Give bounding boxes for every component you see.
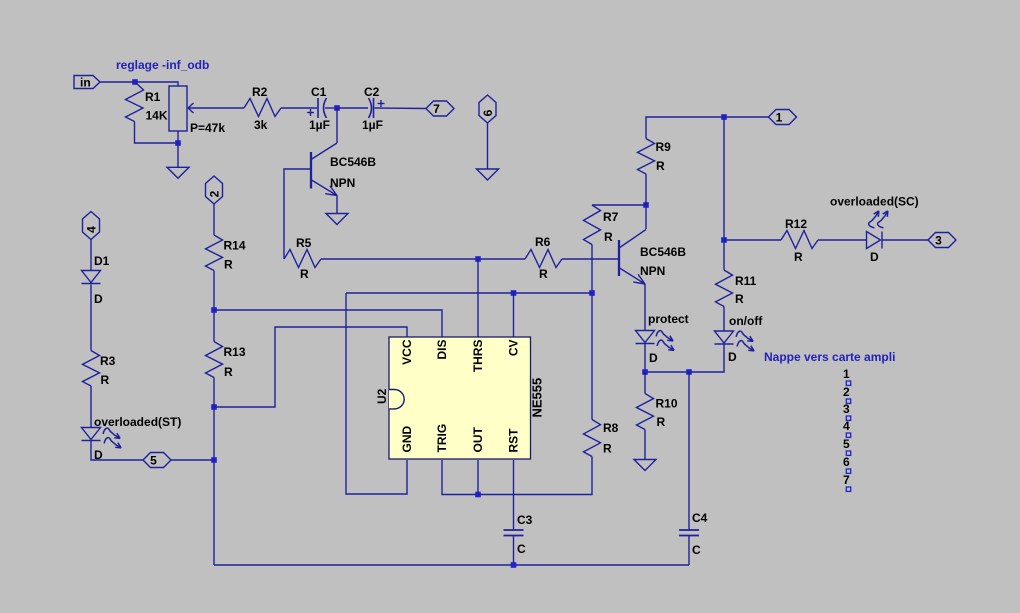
svg-text:R5: R5 — [296, 236, 312, 250]
capacitor C3 — [504, 529, 524, 531]
wire C1 to junction — [325, 107, 337, 109]
wire connector 4 to D1 — [90, 240, 92, 271]
wire R12 to diode SC — [818, 239, 866, 241]
capacitor C2 — [369, 98, 372, 118]
wire protect LED to junction — [644, 344, 646, 373]
svg-text:R: R — [101, 373, 110, 387]
resistor R3 — [83, 351, 100, 387]
svg-text:BC546B: BC546B — [330, 155, 376, 169]
svg-text:6: 6 — [481, 109, 495, 116]
resistor R1 — [126, 82, 144, 122]
svg-text:reglage -inf_odb: reglage -inf_odb — [116, 58, 209, 72]
wire wiper to R2 — [188, 107, 244, 109]
svg-text:3: 3 — [935, 234, 942, 248]
transistor Q1 BC546B — [310, 152, 312, 189]
wire junction to ground — [177, 143, 179, 167]
wire pot bottom — [177, 131, 179, 143]
node junction DIS tap — [211, 307, 217, 313]
ground below R10 — [634, 460, 656, 471]
wire R14 to R13 — [213, 271, 215, 342]
light arrows overloaded(SC) — [868, 210, 879, 229]
diode overloaded(SC) — [867, 232, 881, 249]
svg-text:14K: 14K — [146, 109, 168, 123]
svg-text:NPN: NPN — [330, 176, 355, 190]
node junction VCC tap — [211, 404, 217, 410]
svg-text:1: 1 — [843, 367, 850, 381]
wire Q2 collector riser — [645, 205, 647, 229]
svg-text:3: 3 — [843, 402, 850, 416]
wire R2 to C1 — [281, 107, 317, 109]
svg-text:2: 2 — [843, 385, 850, 399]
svg-text:3k: 3k — [254, 118, 268, 132]
resistor R14 — [206, 235, 223, 271]
svg-text:C1: C1 — [311, 85, 327, 99]
wire Q1 emitter to ground — [336, 196, 338, 215]
svg-text:THRS: THRS — [471, 340, 485, 373]
wire connector 2 to R14 — [213, 204, 215, 235]
node junction C4 tap — [686, 369, 692, 375]
svg-text:BC546B: BC546B — [640, 245, 686, 259]
svg-text:C4: C4 — [692, 511, 708, 525]
resistor R13 — [206, 342, 223, 378]
wire connector 6 to ground — [487, 123, 489, 169]
svg-text:VCC: VCC — [400, 339, 414, 365]
svg-text:on/off: on/off — [729, 314, 763, 328]
wire connector 5 to rail — [171, 459, 214, 461]
svg-text:overloaded(SC): overloaded(SC) — [830, 195, 919, 209]
wire Q2 emitter to protect LED — [644, 284, 646, 330]
svg-text:1: 1 — [776, 111, 783, 125]
wire OUT pin — [477, 460, 479, 495]
resistor R6 — [525, 250, 562, 268]
svg-text:R6: R6 — [535, 235, 551, 249]
svg-text:D: D — [94, 292, 103, 306]
pot wiper arrow — [188, 103, 194, 108]
svg-text:C3: C3 — [517, 513, 533, 527]
resistor R9 — [638, 139, 655, 175]
wire on/off LED to junction — [645, 344, 724, 372]
wire Q1 base to R5 — [284, 169, 311, 259]
wire R7 to R8 — [591, 245, 593, 420]
node junction TRIG/OUT — [475, 492, 481, 498]
ground below potentiometer — [167, 167, 189, 178]
svg-text:R: R — [224, 258, 233, 272]
node junction at connector 1 line — [721, 114, 727, 120]
wire CV drop — [513, 293, 515, 337]
wire R11 to on/off LED — [723, 307, 725, 332]
wire R13 to bus corner — [213, 378, 215, 566]
svg-text:Nappe vers carte ampli: Nappe vers carte ampli — [764, 350, 895, 364]
svg-text:R: R — [657, 415, 666, 429]
svg-text:D: D — [870, 250, 879, 264]
svg-text:R: R — [539, 267, 548, 281]
resistor R2 — [244, 99, 281, 117]
connector 6 — [479, 95, 496, 123]
svg-text:R: R — [794, 250, 803, 264]
capacitor C1 — [317, 98, 319, 118]
svg-text:4: 4 — [843, 419, 850, 433]
svg-text:R: R — [300, 267, 309, 281]
wire R9 to junction — [645, 174, 647, 205]
wire bottom bus — [214, 564, 689, 566]
wire C4 to bus — [688, 536, 690, 566]
wire in to potentiometer top — [100, 82, 178, 86]
connector in — [74, 76, 100, 89]
wire C2 to connector 7 — [375, 107, 427, 110]
svg-text:R: R — [603, 442, 612, 456]
svg-text:R8: R8 — [603, 421, 619, 435]
svg-text:C: C — [517, 542, 526, 556]
svg-text:5: 5 — [150, 454, 157, 468]
wire diode to connector 3 — [882, 239, 928, 241]
svg-text:R14: R14 — [224, 239, 246, 253]
wire junction to R8 — [478, 457, 592, 495]
connector 3 — [928, 233, 956, 248]
svg-text:R2: R2 — [252, 85, 268, 99]
resistor R12 — [781, 231, 818, 249]
wire VCC line — [214, 327, 407, 407]
svg-text:R3: R3 — [100, 354, 116, 368]
wire R12 link — [724, 239, 781, 241]
wire THRS drop — [477, 259, 479, 337]
svg-text:overloaded(ST): overloaded(ST) — [94, 415, 181, 429]
connector 4 — [83, 212, 100, 240]
svg-text:R: R — [656, 159, 665, 173]
resistor R5 — [284, 250, 321, 268]
svg-text:R: R — [735, 292, 744, 306]
svg-text:R9: R9 — [656, 140, 672, 154]
resistor R7 — [584, 205, 601, 245]
svg-text:U2: U2 — [375, 388, 389, 404]
wire R10 to ground — [644, 430, 646, 461]
IC notch — [389, 390, 404, 409]
svg-text:6: 6 — [843, 455, 850, 469]
node junction CV tap — [511, 290, 517, 296]
svg-text:D1: D1 — [94, 254, 110, 268]
svg-text:C: C — [692, 543, 701, 557]
node junction rail x592 at y293 — [589, 290, 595, 296]
wire junction to R10 — [644, 372, 646, 394]
svg-text:7: 7 — [843, 473, 850, 487]
wire Q1 collector to junction — [336, 108, 338, 143]
svg-text:7: 7 — [433, 102, 440, 116]
wire R9 to connector 1 — [646, 117, 769, 139]
svg-text:5: 5 — [843, 437, 850, 451]
wire CV/GND horizontal y293 — [346, 292, 592, 294]
node junction protect/R10 — [642, 369, 648, 375]
svg-text:GND: GND — [400, 426, 414, 453]
svg-text:D: D — [728, 350, 737, 364]
light arrows on/off — [736, 331, 755, 342]
svg-text:R7: R7 — [603, 210, 619, 224]
wire DIS line — [214, 310, 442, 337]
capacitor C4 — [679, 529, 699, 531]
svg-text:CV: CV — [507, 340, 521, 357]
resistor R10 — [637, 394, 654, 430]
svg-text:NPN: NPN — [640, 264, 665, 278]
light arrows protect — [656, 330, 675, 341]
wire R6 to Q2 base — [562, 258, 619, 260]
wire LED ST to connector 5 — [91, 441, 143, 461]
svg-text:R13: R13 — [224, 345, 246, 359]
wire R5 to R6 — [321, 258, 525, 260]
wire TRIG pin — [442, 460, 478, 495]
svg-text:R10: R10 — [656, 397, 678, 411]
connector 2 — [206, 176, 223, 204]
ground below Q1 — [326, 214, 348, 225]
wire R3 to LED ST — [90, 386, 92, 428]
node junction hex5 tap — [211, 457, 217, 463]
wire junction to C2 — [337, 107, 368, 109]
node junction C3 bus — [511, 562, 517, 568]
connector 5 — [143, 453, 171, 468]
svg-text:2: 2 — [208, 190, 222, 197]
LED overloaded(ST) — [82, 428, 101, 440]
svg-text:TRIG: TRIG — [435, 424, 449, 453]
transistor Q2 BC546B — [618, 240, 620, 276]
node junction at in/R1/pot — [132, 79, 138, 85]
wire RST pin to C3 — [513, 460, 515, 530]
connector 1 — [769, 110, 797, 125]
svg-text:R12: R12 — [785, 217, 807, 231]
node junction R9/R7/Q2 — [643, 202, 649, 208]
ground below connector 6 — [477, 169, 499, 180]
IC U2 NE555 body — [389, 337, 531, 459]
wire R7 link — [592, 204, 646, 206]
node junction THRS tap — [475, 256, 481, 262]
svg-text:1µF: 1µF — [362, 118, 383, 132]
svg-text:C2: C2 — [364, 85, 380, 99]
potentiometer P=47k — [169, 86, 187, 131]
wire R1 bottom to pot bottom junction — [135, 122, 179, 144]
LED on/off — [715, 331, 734, 343]
connector 7 — [426, 101, 454, 116]
LED protect — [636, 331, 655, 343]
svg-text:1µF: 1µF — [309, 118, 330, 132]
resistor R11 — [716, 270, 733, 307]
svg-text:D: D — [649, 351, 658, 365]
light arrows overloaded(ST) — [103, 428, 122, 439]
svg-text:DIS: DIS — [435, 340, 449, 360]
wire GND pin routing — [346, 293, 407, 494]
wire rail to R11 — [723, 117, 725, 270]
svg-text:4: 4 — [85, 226, 99, 233]
svg-text:P=47k: P=47k — [190, 121, 225, 135]
svg-text:RST: RST — [507, 428, 521, 453]
svg-text:R1: R1 — [145, 90, 161, 104]
node junction R12 tap — [721, 237, 727, 243]
node junction C1/C2/Q1 — [334, 105, 340, 111]
svg-text:protect: protect — [648, 312, 689, 326]
svg-text:R: R — [604, 230, 613, 244]
resistor R8 — [584, 420, 601, 457]
node junction pot bottom — [175, 140, 181, 146]
svg-text:in: in — [80, 76, 91, 90]
svg-text:R: R — [224, 365, 233, 379]
svg-text:OUT: OUT — [471, 427, 485, 453]
wire C4 riser — [688, 372, 690, 530]
wire D1 to R3 — [90, 285, 92, 351]
svg-text:NE555: NE555 — [530, 378, 545, 418]
wire C3 to bus — [513, 536, 515, 566]
svg-text:R11: R11 — [735, 274, 757, 288]
diode D1 — [82, 271, 101, 283]
